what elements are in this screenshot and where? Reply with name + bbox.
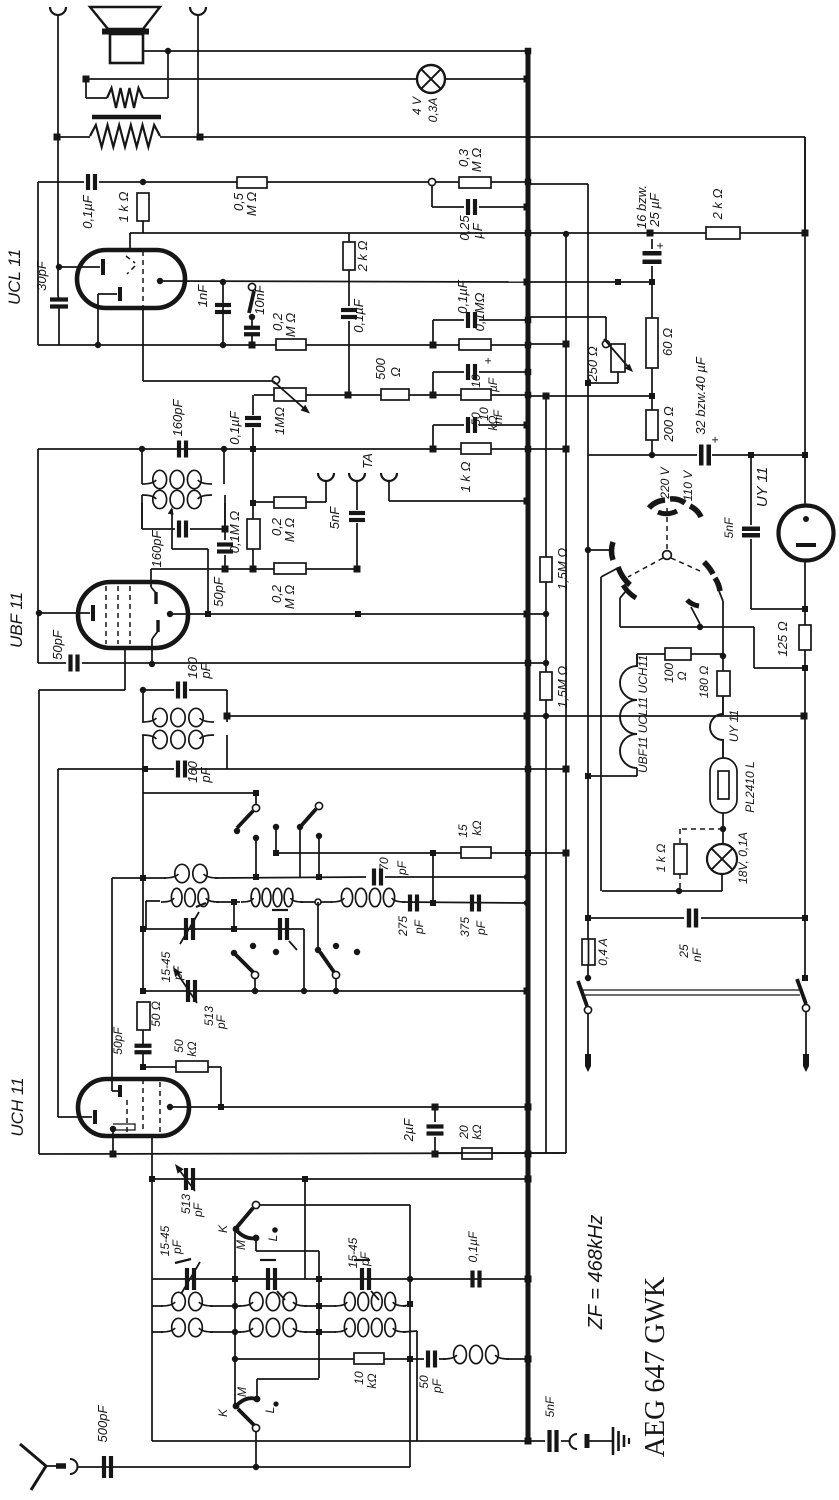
wire (y=344/449 right ext)	[528, 343, 566, 345]
svg-text:1nF: 1nF	[195, 284, 210, 307]
wire (lamp line y=79)	[86, 78, 417, 80]
wire (y=1279 trimmer line)	[152, 1278, 528, 1280]
wire (y=716 long line)	[227, 715, 804, 717]
svg-text:50: 50	[172, 1039, 186, 1053]
tube UCL11	[77, 250, 185, 308]
wire (y=902 to caps)	[402, 902, 527, 903]
capacitor 30pF	[50, 297, 68, 301]
grids (dashed)	[105, 586, 107, 644]
wire (grid line y=1179)	[151, 1136, 153, 1441]
capacitor 0,1uF (screen bypass)	[348, 282, 350, 306]
svg-text:pF: pF	[430, 1378, 444, 1394]
rheostat 250 Ohm	[611, 344, 625, 372]
svg-text:pF: pF	[214, 1014, 228, 1030]
wire (y=690 left part)	[39, 689, 125, 691]
wire (lamp to bus)	[445, 78, 527, 80]
ballast lamp PL2410L	[710, 758, 737, 813]
svg-text:pF: pF	[191, 1202, 205, 1218]
svg-text:M Ω: M Ω	[282, 518, 297, 542]
capacitor 50pF (ant to osc)	[410, 1358, 424, 1360]
resistor 1kOhm (cathode)	[137, 193, 149, 221]
svg-text:70: 70	[377, 857, 391, 871]
wire (K contact to band rail)	[234, 1229, 236, 1279]
wire (left rail x=39)	[38, 690, 40, 1154]
node	[231, 899, 237, 905]
svg-text:1 k Ω: 1 k Ω	[458, 461, 473, 492]
wire (speaker to HT bus, y=51)	[143, 50, 527, 52]
wire (AF line y=345)	[38, 344, 527, 346]
diode plate 1	[154, 592, 157, 604]
node	[231, 926, 237, 932]
svg-text:2µF: 2µF	[401, 1118, 416, 1143]
tuning coil row (grid coils)	[145, 901, 147, 929]
transformer (mains, voltage selector)	[663, 551, 672, 560]
capacitor 0,1uF + resistor 0,1MOhm to bus	[432, 320, 434, 345]
svg-text:0,1µF: 0,1µF	[227, 410, 242, 445]
svg-text:pF: pF	[198, 766, 213, 783]
wire (5nF return y=609)	[751, 608, 805, 610]
resistor 200 Ohm	[646, 410, 658, 440]
svg-text:0,1MΩ: 0,1MΩ	[472, 292, 487, 331]
svg-text:160pF: 160pF	[149, 530, 164, 568]
wire (y=1359 10k line)	[232, 1356, 238, 1362]
svg-text:pF: pF	[395, 860, 409, 876]
node (0,3M tap)	[428, 178, 435, 185]
wire (0,25uF branch)	[431, 186, 433, 207]
wire (x=235 link)	[234, 1279, 236, 1359]
svg-text:50: 50	[417, 1375, 431, 1389]
svg-text:UBF11 UCL11 UCH11: UBF11 UCL11 UCH11	[636, 655, 650, 773]
svg-text:10: 10	[477, 407, 491, 421]
mains switch (right pole)	[802, 975, 808, 981]
wire (x=305 link)	[304, 1179, 306, 1279]
resistor 0,2MOhm	[274, 497, 306, 508]
svg-text:5nF: 5nF	[327, 506, 342, 529]
wire (selector to heater chain)	[620, 591, 626, 598]
svg-text:µF: µF	[470, 222, 485, 238]
svg-text:pF: pF	[170, 1239, 184, 1255]
node	[149, 661, 155, 667]
anode (UBF11)	[167, 611, 173, 617]
resistor 2kOhm (field)	[706, 227, 740, 239]
terminal hook (TA left)	[318, 473, 334, 481]
switch coupling bar	[582, 989, 800, 991]
earth jack	[570, 1434, 578, 1449]
wire (M contact down)	[255, 1238, 257, 1251]
wire (selector left contact)	[585, 547, 591, 553]
capacitor 0,1uF (osc pad)	[470, 1271, 474, 1288]
wire (y=396 right ext)	[528, 395, 652, 397]
svg-text:4 V: 4 V	[410, 96, 424, 115]
node	[430, 446, 437, 453]
wire TA right to bus	[388, 482, 390, 501]
switch S1a	[255, 793, 257, 804]
svg-text:110 V: 110 V	[681, 470, 695, 501]
wire (x=588 to fuse)	[585, 773, 591, 779]
wire (heater return y=891)	[602, 890, 722, 892]
switch S2b	[315, 947, 321, 953]
svg-text:50pF: 50pF	[111, 1027, 125, 1055]
resistor 2kOhm (screen feed)	[348, 233, 350, 242]
svg-text:Ω: Ω	[388, 367, 403, 377]
capacitor 32bzw40uF (elco)	[699, 445, 704, 466]
svg-text:5nF: 5nF	[722, 517, 736, 538]
trimmer 15-45pF	[184, 918, 188, 940]
svg-text:50 Ω: 50 Ω	[149, 1001, 163, 1027]
heater UY11 (bump)	[710, 696, 723, 758]
resistor 0,1MOhm (x=254)	[252, 449, 254, 519]
svg-text:L: L	[263, 1407, 277, 1414]
wire (y=877/878 coil line)	[112, 877, 166, 879]
svg-text:1,5M Ω: 1,5M Ω	[555, 666, 570, 709]
capacitor 160pF (IF3 sec)	[58, 768, 174, 770]
svg-text:375: 375	[458, 917, 472, 937]
resistor 125 Ohm	[799, 625, 811, 650]
trimmer 513pF (osc grid)	[184, 1168, 188, 1190]
svg-text:kΩ: kΩ	[185, 1041, 199, 1056]
svg-text:ZF = 468kHz: ZF = 468kHz	[585, 1215, 607, 1331]
wire (y=184 right ext)	[528, 183, 588, 185]
node	[430, 900, 436, 906]
resistor 1,5MOhm (2)	[540, 672, 552, 700]
wire (switch common to right rail)	[259, 1204, 410, 1206]
svg-text:15: 15	[456, 824, 470, 838]
svg-text:500: 500	[373, 357, 388, 379]
svg-text:180 Ω: 180 Ω	[697, 666, 711, 698]
wire (y=1153 return)	[435, 1152, 566, 1154]
terminal hook T2 (speaker top right)	[190, 7, 206, 15]
tube UCH11	[78, 1079, 189, 1136]
svg-text:+: +	[708, 436, 722, 443]
wire (x=143 rail down)	[142, 878, 144, 991]
wire (rail hook T2 down to transformer wire)	[197, 14, 199, 137]
capacitor 160pF (IF2 sec)	[141, 503, 143, 529]
svg-text:pF: pF	[412, 919, 426, 935]
resistor 15kOhm	[461, 847, 491, 858]
wire (50k line)	[140, 1064, 146, 1070]
electrode (osc anode)	[110, 1126, 116, 1132]
svg-text:pF: pF	[198, 662, 213, 679]
svg-text:UCL 11: UCL 11	[5, 249, 24, 305]
wire (grid line y=182)	[38, 181, 84, 183]
coil (antenna choke)	[439, 1358, 446, 1360]
svg-text:275: 275	[396, 916, 410, 937]
capacitor 500pF	[102, 1456, 106, 1478]
switch (tone, with 10nF)	[248, 283, 255, 290]
svg-text:10: 10	[352, 1371, 366, 1385]
resistor 50 Ohm	[140, 988, 146, 994]
resistor 500 Ohm	[381, 389, 409, 400]
anode (UCL11 pentode)	[157, 278, 163, 284]
trimmer 15-45pF (osc L)	[360, 1268, 364, 1290]
resistor 100 Ohm	[637, 653, 665, 655]
resistor 0,2MOhm (grid leak)	[276, 339, 306, 350]
speaker LS	[90, 7, 160, 29]
wire (y=502/TA)	[253, 501, 274, 503]
svg-text:kΩ: kΩ	[470, 820, 484, 835]
svg-text:UY 11: UY 11	[754, 467, 771, 507]
resistor 0,5MOhm	[237, 177, 267, 188]
svg-text:AEG 647 GWK: AEG 647 GWK	[640, 1277, 671, 1457]
svg-text:1,5M Ω: 1,5M Ω	[555, 548, 570, 591]
switch S1b	[315, 802, 322, 809]
svg-text:500pF: 500pF	[95, 1405, 110, 1443]
capacitor 5nF (UY)	[750, 455, 752, 525]
node	[430, 342, 437, 349]
svg-text:0,1µF: 0,1µF	[80, 194, 95, 229]
capacitor 25nF (mains)	[588, 917, 684, 919]
resistor 0,3MOhm	[459, 177, 491, 188]
svg-text:kΩ: kΩ	[365, 1373, 379, 1388]
svg-text:nF: nF	[690, 947, 704, 962]
wire (y=233 components)	[563, 231, 569, 237]
capacitor 50pF (UCH grid)	[142, 1030, 144, 1044]
capacitor 16bzw25uF (elco)	[643, 251, 662, 256]
wire (x=433 link)	[432, 853, 434, 903]
wire (switch frame y=793)	[142, 769, 144, 878]
capacitor 70pF	[372, 869, 376, 886]
transformer core	[92, 115, 161, 120]
wire (loop right side)	[167, 51, 169, 98]
svg-text:125 Ω: 125 Ω	[775, 621, 790, 656]
svg-text:K: K	[216, 1408, 230, 1417]
svg-text:0,1M Ω: 0,1M Ω	[227, 511, 242, 554]
switch S3 (K-M-L wave change)	[252, 1201, 259, 1208]
wire (y=853 line)	[273, 850, 279, 856]
terminal hook (TA mid)	[349, 473, 365, 481]
svg-text:1 k Ω: 1 k Ω	[116, 191, 131, 222]
svg-text:M Ω: M Ω	[282, 585, 297, 609]
wire (right rail x=805)	[804, 137, 806, 505]
node	[430, 850, 436, 856]
svg-text:0,1µF: 0,1µF	[466, 1231, 480, 1263]
lamp La1 4V 0,3A	[417, 65, 445, 93]
wire (loop left side)	[83, 76, 90, 83]
capacitor 275pF	[408, 895, 412, 912]
svg-text:20: 20	[457, 1125, 471, 1140]
coil (aerial coupling)	[164, 874, 178, 878]
svg-text:UY 11: UY 11	[727, 710, 741, 742]
svg-text:2 k Ω: 2 k Ω	[355, 240, 370, 272]
electrode (signal grid)	[39, 612, 90, 614]
wire (y=929 trimmer line)	[140, 926, 146, 932]
svg-text:PL2410 L: PL2410 L	[743, 761, 757, 812]
resistor 1kOhm (lamp shunt, dashed links)	[680, 828, 723, 830]
wire (left rail x=38 upper)	[37, 182, 39, 345]
wire (x=588 rail)	[587, 184, 589, 455]
svg-text:10: 10	[469, 374, 483, 388]
capacitor 1nF	[222, 282, 224, 345]
wire (y=282 right ext)	[528, 281, 652, 283]
svg-text:+: +	[481, 357, 495, 364]
electrode (triode grid)	[59, 266, 100, 268]
svg-text:Ω: Ω	[675, 671, 689, 680]
resistor 180 Ohm	[722, 656, 724, 671]
switch S2a	[231, 950, 237, 956]
svg-text:M Ω: M Ω	[469, 148, 484, 172]
capacitor 50pF (UBF grid)	[37, 449, 39, 663]
trimmer 15-45pF (osc K)	[185, 1268, 189, 1290]
svg-text:0,3A: 0,3A	[426, 98, 440, 123]
heater coils UBF11 UCL11 UCH11	[620, 654, 637, 768]
tube UBF11	[78, 582, 188, 648]
wire (screen line y=233)	[130, 232, 805, 234]
wire (left rail x=58)	[57, 769, 59, 1117]
svg-text:25 µF: 25 µF	[647, 192, 662, 228]
switch S4 (K-M-L antenna)	[234, 1359, 236, 1406]
resistor 60 Ohm	[651, 282, 653, 318]
svg-text:60 Ω: 60 Ω	[660, 328, 675, 356]
svg-text:2 k Ω: 2 k Ω	[710, 188, 725, 220]
selector contact arcs	[649, 500, 665, 508]
svg-text:30pF: 30pF	[34, 260, 49, 291]
wire (HT line y=137)	[54, 134, 61, 141]
resistor 20kOhm	[462, 1148, 492, 1159]
svg-text:M Ω: M Ω	[244, 192, 259, 216]
antenna	[20, 1444, 46, 1490]
svg-text:25: 25	[677, 944, 691, 959]
resistor 0,2MOhm (y=569)	[274, 563, 306, 574]
resistor 10kOhm	[354, 1353, 384, 1364]
resistor 1,5MOhm (1)	[545, 396, 547, 557]
fuse 0,4A	[587, 776, 589, 939]
svg-text:0,1µF: 0,1µF	[351, 298, 366, 333]
electrode (cathode)	[98, 293, 117, 295]
coil (IF3 primary)	[142, 690, 144, 722]
svg-text:220 V: 220 V	[658, 466, 672, 499]
tap arrow on secondary	[171, 509, 173, 549]
wire (dial lamp feed y=317)	[528, 316, 606, 318]
wire (y=395 line)	[254, 394, 274, 396]
svg-text:nF: nF	[491, 409, 505, 424]
svg-text:10nF: 10nF	[252, 284, 267, 315]
mains switch (left pole)	[578, 981, 587, 1006]
grids (dashed)	[142, 1079, 144, 1130]
capacitor 0,1uF (UCL grid)	[86, 174, 90, 190]
svg-text:160pF: 160pF	[170, 399, 185, 437]
svg-text:UCH 11: UCH 11	[8, 1077, 27, 1136]
node	[140, 179, 146, 185]
svg-text:200 Ω: 200 Ω	[661, 406, 676, 442]
capacitor 375pF	[470, 895, 474, 912]
wire (heater chain left rail x=601)	[601, 569, 616, 577]
node	[430, 392, 437, 399]
svg-text:+: +	[653, 242, 667, 249]
wire (volume pot feed)	[142, 308, 144, 381]
svg-text:0,4 A: 0,4 A	[596, 938, 610, 966]
grid (dashed internal)	[142, 251, 144, 307]
wire (anode line y=282)	[160, 281, 527, 282]
resistor (hum-buck winding)	[86, 97, 107, 99]
capacitor 0,25uF	[466, 199, 470, 215]
wire (y=991 line)	[143, 990, 527, 992]
wire (y=455 line)	[588, 454, 697, 456]
IF transformer II top: capacitor 160pF	[139, 446, 145, 452]
svg-text:M: M	[234, 1240, 248, 1250]
dial lamp 18V 0,1A	[707, 844, 737, 874]
svg-text:kΩ: kΩ	[470, 1124, 484, 1139]
coil (IF3 secondary)	[142, 735, 156, 739]
wire (antenna line y=1467)	[77, 1466, 410, 1468]
electrode (cathode)	[58, 1116, 92, 1118]
trimmer (padder)	[278, 918, 282, 940]
svg-text:M Ω: M Ω	[283, 313, 298, 337]
wire (screen to tube)	[129, 233, 131, 250]
svg-text:50pF: 50pF	[211, 576, 226, 607]
diode plate 2	[156, 620, 159, 632]
svg-text:1MΩ: 1MΩ	[272, 407, 287, 435]
resistor 50kOhm	[176, 1061, 208, 1072]
capacitor 5nF (TA)	[356, 482, 358, 510]
wire (x=112 link from coils)	[111, 878, 113, 1091]
potentiometer 1MOhm (volume)	[272, 376, 279, 383]
wire (y=569 diode line)	[151, 568, 358, 570]
bus (chassis/HT rail)	[526, 49, 531, 1441]
capacitor 2uF	[434, 1107, 436, 1122]
coil (IF2 primary)	[141, 449, 143, 484]
svg-text:M: M	[235, 1387, 249, 1397]
svg-text:pF: pF	[358, 1251, 372, 1267]
capacitor 10uF + resistor 50kOhm	[432, 372, 434, 395]
svg-text:UBF 11: UBF 11	[7, 592, 26, 648]
svg-text:18V, 0,1A: 18V, 0,1A	[736, 832, 750, 884]
anode (UCH11)	[167, 1104, 173, 1110]
svg-text:pF: pF	[474, 920, 488, 936]
capacitor 50pF (diode)	[224, 529, 226, 540]
wire (AVC feed x=253)	[252, 395, 254, 415]
trimmer (osc M)	[266, 1268, 270, 1290]
oscillator coil row 1	[152, 1305, 163, 1307]
wire (corner down right)	[804, 137, 806, 233]
wire (frame bottom y=1441)	[152, 1440, 528, 1442]
wire (x=566 rail)	[565, 234, 567, 1153]
svg-text:0,1µF: 0,1µF	[455, 279, 470, 314]
svg-text:L: L	[266, 1235, 280, 1242]
wire (cathode line y=1154)	[39, 1153, 566, 1154]
wire (right tap to 180 Ohm)	[719, 591, 723, 601]
coil (IF2 secondary)	[141, 495, 143, 529]
winding (output transformer primary)	[90, 125, 160, 147]
node (junction speaker feedback)	[165, 48, 171, 54]
svg-text:1 k Ω: 1 k Ω	[654, 844, 668, 872]
svg-text:K: K	[216, 1224, 230, 1233]
terminal hook (TA right)	[381, 473, 397, 481]
wire (y=449 line)	[38, 448, 433, 450]
svg-text:32 bzw.40 µF: 32 bzw.40 µF	[693, 356, 708, 435]
svg-text:50pF: 50pF	[50, 629, 65, 660]
wire (anode line y=1107)	[170, 1106, 528, 1108]
svg-text:µF: µF	[486, 377, 500, 392]
trimmer 513pF (osc)	[186, 980, 190, 1002]
ground (earth symbol)	[612, 1427, 615, 1455]
wire (IF anode line y=614)	[170, 613, 546, 615]
svg-text:100: 100	[662, 663, 676, 683]
capacitor 5nF (chassis to earth)	[528, 1440, 545, 1442]
wire (left rail from hook T1 down)	[57, 14, 59, 296]
capacitor 10nF + resistor 1kOhm	[432, 425, 434, 449]
terminal hook T1 (speaker top left)	[50, 7, 66, 15]
IF transformer III: capacitor 160pF	[124, 649, 126, 690]
oscillator coil row 2	[152, 1331, 163, 1333]
svg-text:TA: TA	[360, 453, 375, 469]
svg-text:5nF: 5nF	[543, 1396, 557, 1417]
electrode (osc grid top)	[118, 1085, 122, 1097]
